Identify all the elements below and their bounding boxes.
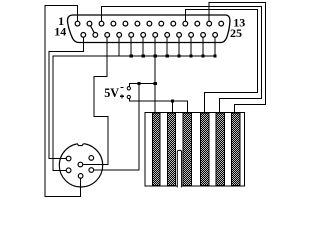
svg-text:5V: 5V — [104, 86, 119, 100]
svg-text:25: 25 — [230, 26, 242, 40]
svg-text:14: 14 — [54, 25, 66, 39]
